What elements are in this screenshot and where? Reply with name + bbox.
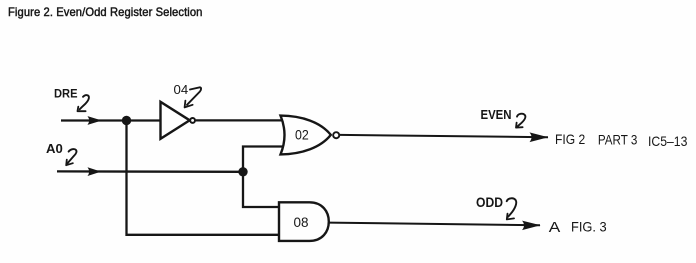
wire inverter output to NOR gate upper input bbox=[196, 119, 283, 121]
annotation arrow at ODD bbox=[507, 198, 517, 219]
node junction on A0 line bbox=[238, 167, 247, 176]
annotation arrow at 04 bbox=[185, 87, 201, 107]
annotation arrow at A0 bbox=[66, 149, 76, 165]
svg-text:Figure 2. Even/Odd Register Se: Figure 2. Even/Odd Register Selection bbox=[8, 5, 203, 19]
svg-text:FIG 2: FIG 2 bbox=[555, 131, 585, 147]
arrowhead EVEN bbox=[530, 132, 549, 142]
wire A0 input bbox=[57, 170, 243, 173]
arrowhead on DRE wire bbox=[88, 116, 102, 125]
NOR gate 02 bbox=[281, 116, 340, 155]
node junction on DRE line bbox=[122, 116, 131, 125]
svg-text:A0: A0 bbox=[46, 142, 63, 156]
wire from A0 junction down and right to AND gate upper input bbox=[243, 172, 280, 207]
svg-text:08: 08 bbox=[294, 214, 309, 230]
annotation arrow at DRE bbox=[78, 95, 89, 111]
wire AND output to ODD arrow bbox=[329, 223, 540, 226]
svg-text:FIG. 3: FIG. 3 bbox=[571, 219, 607, 235]
svg-text:02: 02 bbox=[295, 126, 309, 142]
arrowhead on A0 wire bbox=[88, 167, 102, 176]
svg-text:DRE: DRE bbox=[54, 86, 78, 100]
wire from DRE junction down and right to AND gate lower input bbox=[127, 121, 280, 235]
wire riser from A0 junction up to NOR gate lower input bbox=[243, 147, 283, 172]
AND gate 08 bbox=[279, 202, 329, 241]
wire DRE input bbox=[61, 119, 161, 121]
svg-text:A: A bbox=[549, 220, 561, 236]
svg-text:IC5–13: IC5–13 bbox=[648, 133, 688, 149]
svg-text:EVEN: EVEN bbox=[481, 108, 512, 122]
annotation arrow at EVEN bbox=[516, 114, 525, 128]
arrowhead ODD bbox=[522, 221, 541, 231]
svg-text:ODD: ODD bbox=[476, 195, 503, 210]
inverter 04 bbox=[161, 102, 196, 139]
wire NOR output to EVEN arrow bbox=[340, 135, 548, 137]
svg-text:04: 04 bbox=[174, 82, 189, 97]
svg-text:PART 3: PART 3 bbox=[598, 132, 638, 148]
